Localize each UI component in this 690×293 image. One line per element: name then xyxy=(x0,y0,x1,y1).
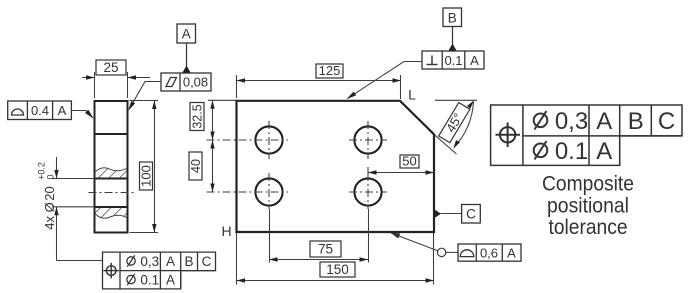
chamfer 45 degree dimension xyxy=(435,100,478,154)
dimension 75 xyxy=(269,241,368,262)
row 2 xyxy=(127,275,135,283)
svg-text:tolerance: tolerance xyxy=(549,216,628,239)
centerlines row2 xyxy=(207,191,289,193)
svg-text:C: C xyxy=(658,108,675,135)
position symbol xyxy=(500,127,515,142)
datum C symbol xyxy=(434,205,480,224)
broken-out section hatch band upper xyxy=(96,168,127,178)
leader for perpendicularity xyxy=(347,62,423,100)
svg-text:B: B xyxy=(628,108,644,135)
leader for 0.4 A xyxy=(71,110,93,119)
svg-text:75: 75 xyxy=(318,242,333,257)
svg-text:A: A xyxy=(166,254,175,269)
svg-text:L: L xyxy=(408,87,416,103)
row 1 xyxy=(534,114,548,128)
hole top-left xyxy=(255,126,282,153)
svg-text:positional: positional xyxy=(547,194,629,217)
svg-text:150: 150 xyxy=(326,262,349,277)
svg-text:A: A xyxy=(507,245,516,260)
svg-text:25: 25 xyxy=(103,60,118,75)
svg-text:40: 40 xyxy=(189,159,203,173)
svg-text:125: 125 xyxy=(319,63,341,78)
svg-text:0: 0 xyxy=(46,174,56,179)
svg-text:0.1: 0.1 xyxy=(555,138,588,165)
dimension 4x dia 20 +0.2/0 xyxy=(37,157,95,261)
leader for flatness xyxy=(128,82,161,111)
hole bottom-left xyxy=(255,178,282,205)
broken-out section hatch band lower xyxy=(96,208,127,218)
hole top-right xyxy=(354,126,381,153)
svg-text:A: A xyxy=(166,273,175,288)
svg-text:C: C xyxy=(466,207,476,222)
dimension 150 xyxy=(237,233,435,285)
position symbol xyxy=(106,266,116,276)
svg-text:0,08: 0,08 xyxy=(183,75,208,90)
svg-text:0.1: 0.1 xyxy=(444,53,462,68)
svg-text:0,6: 0,6 xyxy=(480,245,498,260)
svg-text:A: A xyxy=(58,103,67,118)
side view outline xyxy=(95,101,128,233)
centerlines vertical top holes xyxy=(268,121,270,159)
datum B symbol xyxy=(443,8,462,51)
svg-text:100: 100 xyxy=(139,165,154,187)
svg-text:B: B xyxy=(184,254,193,269)
hole bottom-right xyxy=(354,178,381,205)
side view hole centerline xyxy=(89,192,137,194)
profile FCF 0,6 A (bottom) with all-around leader xyxy=(390,232,521,261)
hole lower wall line xyxy=(95,206,128,208)
svg-text:A: A xyxy=(596,138,612,165)
svg-text:A: A xyxy=(182,27,191,42)
svg-text:0.1: 0.1 xyxy=(140,273,159,288)
row 2 xyxy=(534,144,548,158)
dimension 32.5 xyxy=(190,100,237,140)
centerlines row1 xyxy=(207,139,289,141)
svg-text:0,3: 0,3 xyxy=(140,254,159,269)
svg-text:0.4: 0.4 xyxy=(31,103,49,118)
profile FCF 0.4 A (left) xyxy=(8,101,72,120)
svg-text:4x Ø20: 4x Ø20 xyxy=(42,186,57,229)
svg-text:50: 50 xyxy=(402,154,416,169)
svg-text:C: C xyxy=(202,254,212,269)
hole upper wall line xyxy=(95,178,128,180)
side view internal face line xyxy=(95,133,128,135)
svg-text:32.5: 32.5 xyxy=(191,104,205,128)
row 1 xyxy=(127,257,135,265)
svg-text:A: A xyxy=(470,53,479,68)
svg-text:A: A xyxy=(596,108,612,135)
dimension 50 xyxy=(368,154,434,178)
datum A symbol xyxy=(177,24,196,73)
caption: Composite positional tolerance xyxy=(542,173,634,239)
dimension 125 xyxy=(237,63,402,99)
svg-text:Composite: Composite xyxy=(542,173,634,196)
dimension 40 xyxy=(189,140,215,192)
dimension 100 xyxy=(130,101,159,233)
svg-text:H: H xyxy=(221,223,231,239)
main view outline with chamfer xyxy=(237,101,435,232)
svg-text:0,3: 0,3 xyxy=(555,108,588,135)
flatness FCF 0,08 xyxy=(161,73,211,91)
svg-text:B: B xyxy=(448,11,457,26)
perpendicularity FCF 0.1 A xyxy=(422,51,484,69)
dimension 25 xyxy=(82,60,150,98)
centerlines vertical bottom holes extended xyxy=(268,173,270,209)
